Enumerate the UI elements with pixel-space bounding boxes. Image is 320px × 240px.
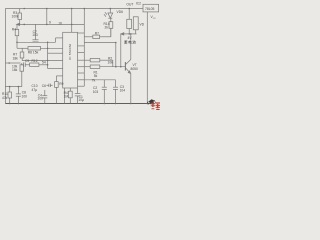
resistor R6 box [20, 65, 24, 71]
capacitor C1 [77, 88, 79, 93]
svg-text:18k: 18k [13, 57, 19, 61]
wire base row [84, 66, 90, 68]
resistor R2 box [90, 59, 100, 62]
wire bottom rail [5, 103, 152, 105]
wire vertical x71.7 [71, 9, 73, 25]
wire pin y68.5 [48, 68, 63, 70]
svg-text:100k: 100k [12, 14, 20, 18]
resistor R8 box [28, 47, 41, 51]
svg-text:100: 100 [38, 97, 44, 101]
svg-text:2k: 2k [105, 25, 109, 29]
svg-text:10µ: 10µ [78, 98, 84, 102]
wire bus x84.3 [83, 9, 85, 87]
transistor VT [124, 62, 126, 71]
resistor R3 box [18, 13, 22, 20]
wire x120.8 down [120, 34, 122, 67]
svg-text:IC 5500M: IC 5500M [68, 44, 72, 60]
svg-text:蓄电池: 蓄电池 [124, 39, 136, 44]
resistor R3 leads [19, 9, 21, 14]
wire y79.8 caps row [84, 79, 115, 81]
svg-text:47µ: 47µ [32, 88, 38, 92]
svg-text:VD: VD [140, 23, 145, 27]
labels [2, 1, 156, 102]
svg-text:8050: 8050 [131, 67, 139, 71]
resistor R4 leads [16, 24, 18, 29]
svg-text:78L05: 78L05 [145, 7, 155, 11]
wire IC top stub [71, 24, 73, 32]
LED VD6 [109, 9, 111, 14]
capacitor C3 [115, 80, 117, 87]
wire y42.3 [17, 41, 56, 43]
svg-text:C9: C9 [25, 59, 29, 63]
svg-text:OUT: OUT [126, 2, 133, 6]
capacitor C2 [103, 80, 105, 87]
wire y86.6 [5, 86, 21, 88]
junction dots [8, 8, 148, 105]
wire step to pin [55, 38, 57, 42]
svg-text:9: 9 [49, 21, 51, 25]
svg-text:7k: 7k [92, 78, 96, 82]
capacitor C6 plates [48, 84, 50, 87]
wire pin y53.2 [48, 52, 63, 54]
svg-text:VD6: VD6 [117, 10, 124, 14]
capacitor C7 [35, 24, 37, 39]
resistor R7 box [93, 35, 100, 38]
resistor R11 leads [9, 87, 11, 92]
wire R2 row [84, 59, 90, 61]
wire y60.5 pin [22, 60, 63, 62]
svg-text:R4: R4 [12, 27, 16, 31]
resistor R5 box [20, 52, 24, 58]
svg-text:5k: 5k [94, 74, 98, 78]
diode VD box [133, 17, 138, 30]
resistor R9 leads [55, 76, 57, 82]
wire y63 [5, 62, 20, 64]
svg-text:16k: 16k [12, 68, 18, 72]
battery bottom wires [128, 29, 130, 34]
wire collector up [130, 34, 132, 60]
wire top rail [5, 8, 143, 10]
regulator IC2 box [143, 4, 159, 12]
wire emitter down [130, 74, 132, 104]
battery cell box [127, 19, 132, 28]
svg-text:10k: 10k [108, 60, 114, 64]
svg-text:16: 16 [58, 22, 62, 26]
resistor R12 box [30, 63, 39, 66]
battery top lead [128, 9, 130, 20]
resistor R1 box [90, 65, 100, 68]
capacitor C8 [17, 87, 19, 94]
resistor 1M box [68, 91, 72, 98]
svg-text:103: 103 [32, 33, 38, 37]
resistor R14 box [109, 22, 113, 29]
svg-text:103: 103 [93, 90, 99, 94]
svg-text:R12: R12 [32, 59, 38, 63]
capacitor C10 [44, 90, 46, 96]
IC pin rungs [78, 32, 85, 34]
watermark logo [148, 99, 160, 110]
svg-text:R9: R9 [59, 82, 63, 86]
svg-text:1M: 1M [64, 95, 69, 99]
svg-text:100: 100 [22, 95, 28, 99]
wire second rail [17, 23, 85, 25]
wire vertical x46.8 top [46, 9, 48, 25]
wire feeder x46.8 [47, 42, 49, 68]
IC U1 box [63, 32, 78, 88]
svg-text:IC2: IC2 [136, 1, 141, 5]
svg-text:47k: 47k [2, 96, 8, 100]
resistor R6 leads [21, 63, 23, 65]
wire Vreg down [146, 12, 148, 104]
svg-text:104: 104 [120, 89, 126, 93]
svg-text:R7: R7 [95, 31, 99, 35]
svg-text:R8 15k: R8 15k [28, 51, 39, 55]
resistor R9 box [55, 82, 59, 88]
wire R7 row [84, 36, 93, 38]
capacitor C9 [21, 64, 24, 66]
resistor R14 leads [110, 18, 112, 22]
resistor R11 box [8, 92, 12, 98]
wire y42.5 [84, 42, 116, 44]
svg-text:54: 54 [42, 60, 46, 64]
wire y48.3 R8 row [17, 47, 28, 49]
wire pin y75.9 [56, 75, 62, 77]
svg-text:C6: C6 [42, 84, 46, 88]
wire left border [4, 9, 6, 104]
IC bottom pin wires [64, 88, 66, 104]
resistor R5 leads [21, 48, 23, 52]
